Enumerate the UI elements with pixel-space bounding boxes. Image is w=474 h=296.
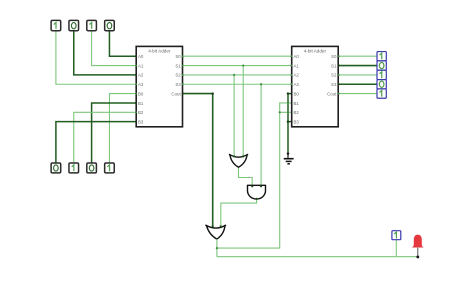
svg-text:S2: S2 [175,73,181,78]
output O1 value 0 [377,61,386,70]
LED D1 [412,235,424,248]
svg-text:B1: B1 [294,101,300,106]
svg-text:4-bit Adder: 4-bit Adder [148,49,171,54]
input I8 value 1 [105,163,115,173]
junction at adder2 B0 [287,92,289,94]
wire input → adder1 A0 [109,31,136,57]
pin node dots adder1 left [135,55,137,122]
wire adder2 Cout → output O4 [338,93,377,95]
output O4 value 1 [377,89,386,98]
svg-text:B0: B0 [294,91,300,96]
wire branch OR2 → adder2 B1,B2 [217,103,292,248]
svg-text:A3: A3 [138,82,144,87]
output O0 value 1 [377,52,386,61]
svg-text:S0: S0 [175,54,181,59]
node LED anode junction [416,255,419,258]
svg-text:S3: S3 [331,82,337,87]
svg-text:B3: B3 [294,119,300,124]
svg-text:4-bit Adder: 4-bit Adder [304,49,327,54]
input I6 value 1 [69,163,79,173]
input I7 value 0 [87,163,97,173]
junction at OR2 output branch [216,247,218,249]
wire input → adder1 B0 [109,94,136,163]
wire input → adder1 B3 [56,122,136,163]
pin node dots adder2 left [287,55,292,113]
wire input → adder1 A2 [74,31,136,75]
junction on S2 line [233,74,235,76]
svg-text:A1: A1 [294,63,300,68]
output O3 value 0 [377,80,386,89]
wire tap S1 → OR1 input B [242,66,244,157]
svg-text:A0: A0 [294,54,300,59]
output O2 value 1 [377,70,386,79]
svg-text:B3: B3 [138,119,144,124]
junction at adder2 B3 [287,120,289,122]
svg-text:S1: S1 [175,63,181,68]
wire AND output → OR2 input B [221,199,257,228]
wire adder1 S2 → adder2 A2 [183,74,292,76]
svg-text:S2: S2 [331,73,337,78]
pin node dots adder2 right [338,55,340,94]
input I4 value 0 [105,20,115,30]
input I5 value 0 [51,163,61,173]
LED D1 lead [417,248,419,256]
wire adder2 S0 → output O0 [338,55,377,57]
corner joint on Cout wire [212,92,214,94]
svg-text:A1: A1 [138,63,144,68]
or-gate OR1 [229,154,248,167]
or-gate OR2 [205,225,226,239]
wire adder2 S2 → output O2 [338,74,377,76]
svg-text:B1: B1 [138,101,144,106]
wire OR2 output → LED net [217,256,418,258]
wire adder2 B0,B3 → ground [288,94,292,153]
svg-text:Cout: Cout [171,91,181,96]
output O5 value 1 [392,231,401,240]
and-gate U3 [248,185,266,200]
input I3 value 1 [87,20,97,30]
svg-text:S0: S0 [331,54,337,59]
wire input → adder1 A3 [56,31,136,85]
wire adder1 S3 → adder2 A3 [183,83,292,85]
4-bit adder U2 [292,46,339,126]
svg-text:S3: S3 [175,82,181,87]
input I2 value 0 [69,20,79,30]
junction at adder2 B2 branch [279,111,281,113]
svg-text:A2: A2 [294,73,300,78]
wire output O5 → LED net [395,240,397,257]
svg-text:A0: A0 [138,54,144,59]
svg-text:A3: A3 [294,82,300,87]
wire adder2 S3 → output O3 [338,83,377,85]
input I1 value 1 [51,20,61,30]
wire tap S3 → AND input B [260,84,262,186]
svg-text:B2: B2 [138,110,144,115]
wire OR2 output [216,239,218,257]
wire adder1 Cout → OR2 input A [183,94,213,228]
junction on S1 line [242,64,244,66]
wire input → adder1 B2 [74,112,136,163]
4-bit adder U1 [136,46,182,126]
wire OR1 output → AND input A [239,167,253,186]
svg-text:B2: B2 [294,110,300,115]
wire adder1 S1 → adder2 A1 [183,65,292,67]
junction on S3 line [260,83,262,85]
ground GND1 [284,152,294,164]
wire tap S2 → OR1 input A [233,75,235,157]
pin node dots adder1 right [182,55,184,94]
wire adder2 S1 → output O1 [338,65,377,67]
svg-text:S1: S1 [331,63,337,68]
svg-text:B0: B0 [138,91,144,96]
wire input → adder1 B1 [92,103,137,163]
wire input → adder1 A1 [92,31,137,66]
svg-text:A2: A2 [138,73,144,78]
wire adder1 S0 → adder2 A0 [183,55,292,57]
svg-text:Cout: Cout [327,91,337,96]
